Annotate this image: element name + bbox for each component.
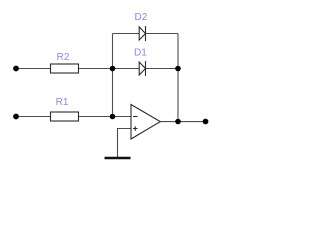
junction: D1 cathode / right rail	[175, 66, 181, 72]
wire: left vertical rail (D2 row down to R1 row)	[112, 34, 114, 117]
junction: R1 / left rail / op-amp inverting input	[110, 114, 116, 120]
wire: D2 top row	[113, 33, 140, 35]
input terminal (bottom, R1 row)	[13, 114, 19, 120]
junction: R2 / D1 / left rail	[110, 66, 116, 72]
svg-text:D1: D1	[134, 48, 147, 59]
wire: op-amp output to output terminal	[160, 121, 206, 123]
input terminal (top, R2 row)	[13, 66, 19, 72]
wire: D1 row	[113, 68, 140, 70]
wire: op-amp non-inverting input to ground drop	[118, 129, 132, 158]
svg-text:R1: R1	[56, 97, 69, 108]
resistor R1	[51, 112, 79, 121]
svg-text:R2: R2	[57, 52, 70, 63]
junction: output / right rail	[175, 119, 181, 125]
wire: input terminal to R1 left lead	[16, 116, 51, 118]
svg-text:D2: D2	[135, 12, 148, 23]
diode D2	[139, 26, 145, 41]
output terminal	[203, 119, 209, 125]
wire: R1 right lead to op-amp inverting input	[78, 116, 131, 118]
wire: R2 right lead to left vertical junction	[78, 68, 113, 70]
ground	[105, 157, 131, 159]
diode D1	[139, 61, 145, 76]
op-amp	[131, 105, 160, 140]
wire: right vertical rail (D2 row down to output row)	[177, 34, 179, 122]
resistor R2	[51, 64, 79, 73]
wire: input terminal to R2 left lead	[16, 68, 51, 70]
